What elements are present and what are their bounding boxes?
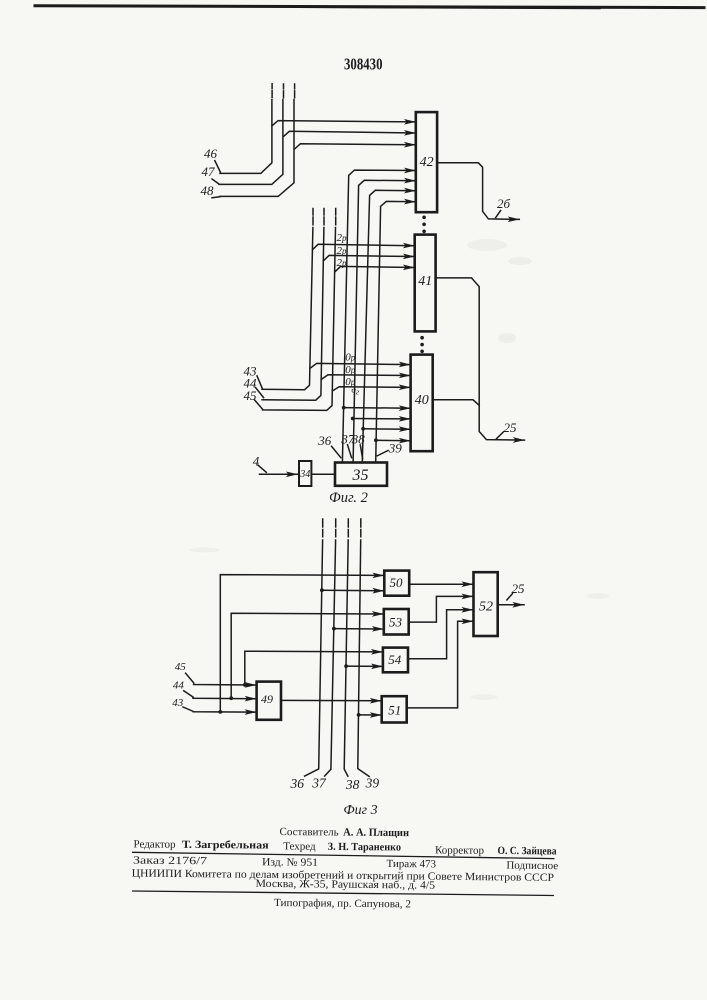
footer: TsNIIPI line	[132, 868, 555, 884]
svg-text:40: 40	[415, 393, 429, 408]
block 52	[474, 572, 498, 636]
wire 36: from block 35 up, bend into block 42 pin 4	[342, 170, 415, 462]
wire 38 branch into block 54 pin 2	[346, 665, 383, 667]
junction dot on wire 36 (fig3)	[320, 588, 324, 592]
svg-text:Фиг. 2: Фиг. 2	[329, 490, 368, 506]
junction dot on wire 36	[342, 406, 346, 410]
svg-text:45: 45	[175, 661, 187, 673]
wire 44 riser to block 53 pin 1	[231, 613, 383, 698]
svg-text:37: 37	[311, 775, 327, 790]
wire from block 34 to block 35	[311, 473, 335, 475]
svg-text:42: 42	[420, 155, 434, 170]
input wire 4 with arrow into block 34	[258, 465, 297, 474]
block 54	[383, 648, 408, 673]
wire 44 (tick, horizontal, riser V2 with dashed top)	[256, 209, 325, 401]
junction dot on wire 39 (fig3)	[357, 713, 361, 717]
svg-text:35: 35	[352, 467, 369, 484]
wire 44 branch 0p into block 40 pin 2	[321, 375, 410, 380]
svg-text:З. Н. Тараненко: З. Н. Тараненко	[328, 841, 402, 854]
svg-text:Изд. № 951: Изд. № 951	[262, 856, 318, 869]
wire 43 branch 2p into block 41 pin 1	[313, 244, 415, 249]
footer: korrektor	[435, 844, 557, 857]
wire 43 riser to block 50 pin 1	[220, 575, 384, 712]
wire 43 (tick, horizontal, riser V1 with dashed top)	[257, 209, 313, 390]
output wire of block 50 into block 52 pin 1	[409, 583, 473, 585]
svg-text:52: 52	[479, 600, 493, 615]
label 38 (fig2) with leader	[360, 445, 362, 459]
footer rule 1	[132, 852, 555, 858]
svg-text:46: 46	[204, 146, 218, 161]
output wire of block 54 into block 52 pin 3	[408, 610, 473, 659]
output wire 25 of block 52	[498, 604, 524, 606]
junction dot on wire 43 (fig3)	[218, 710, 222, 714]
top border rule	[35, 6, 704, 8]
svg-text:Подписное: Подписное	[506, 860, 558, 873]
wire 45 riser to block 54 pin 1	[245, 651, 383, 685]
junction dot on wire 44 (fig3)	[229, 696, 233, 700]
block 34	[299, 461, 311, 486]
svg-text:Фиг 3: Фиг 3	[343, 803, 377, 818]
svg-text:49: 49	[261, 692, 273, 706]
wire 45 (tick, horizontal, riser V3 with dashed top)	[255, 209, 336, 411]
svg-text:2p: 2p	[337, 257, 348, 269]
svg-text:0p: 0p	[345, 351, 356, 363]
wire 39 branch into block 40 pin 7	[376, 439, 411, 442]
svg-text:4: 4	[253, 454, 260, 469]
wire 37 branch into block 40 pin 5	[353, 418, 411, 420]
label 25 (fig2) with leader	[497, 432, 504, 439]
label 39 (fig2) with leader	[377, 451, 388, 456]
svg-text:2p: 2p	[337, 232, 348, 244]
svg-text:А. А. Плащин: А. А. Плащин	[343, 827, 410, 840]
svg-text:39: 39	[365, 776, 380, 791]
output wire of block 53 into block 52 pin 2	[409, 596, 473, 622]
svg-text:51: 51	[388, 703, 401, 718]
svg-text:50: 50	[390, 575, 404, 590]
junction dot on wire 45 (fig3)	[243, 683, 247, 687]
block 50	[384, 571, 409, 596]
svg-text:Типография, пр. Сапунова, 2: Типография, пр. Сапунова, 2	[274, 897, 411, 910]
ellipsis dots between 41 and 40	[420, 336, 424, 353]
wire 48 branch into block 42 pin 3	[295, 144, 416, 149]
svg-text:25: 25	[504, 420, 518, 435]
wire 37: from block 35 up, bend into block 42 pin 5	[353, 180, 416, 462]
output wire of block 42 to arrow 2b	[437, 163, 519, 220]
wire 39 (fig3) vertical with dashed top	[358, 519, 369, 777]
svg-text:47: 47	[202, 164, 216, 179]
label 25 (fig3) with leader	[507, 594, 513, 600]
wire 36 branch into block 40 pin 4	[344, 407, 411, 410]
svg-text:2б: 2б	[497, 196, 511, 211]
wire 36 branch into block 50 pin 2	[322, 589, 384, 592]
svg-text:34: 34	[299, 469, 310, 480]
footer: tipografiya line	[274, 897, 411, 910]
wire 38 (fig3) vertical with dashed top	[344, 519, 348, 776]
output wire of block 49 into block 51 pin 1	[281, 699, 381, 701]
label 36 (fig2) with leader	[332, 446, 341, 457]
svg-text:О. С. Зайцева: О. С. Зайцева	[497, 845, 557, 858]
ellipsis dots between 42 and 41	[422, 216, 426, 234]
label 37 (fig2) with leader	[348, 445, 352, 458]
wire 46 (tick, horizontal, riser to dashed continuation)	[215, 84, 272, 174]
svg-text:54: 54	[388, 652, 402, 667]
output wire of block 41 down to arrow 25	[436, 278, 525, 440]
svg-text:Заказ 2176/7: Заказ 2176/7	[133, 855, 208, 868]
wire 39: from block 35 up, bend into block 42 pin 7	[376, 201, 416, 462]
wire 46 branch into block 42 pin 1	[272, 121, 416, 126]
block 40	[411, 355, 433, 452]
svg-text:2p: 2p	[337, 245, 348, 257]
wire 43 branch 0p into block 40 pin 1	[310, 363, 410, 368]
junction dot on wire 38 (fig3)	[344, 664, 348, 668]
footer: sostavitel line	[279, 826, 409, 839]
wire 45 branch 2p into block 41 pin 3	[335, 266, 415, 271]
wire 38 branch into block 40 pin 6	[363, 428, 410, 431]
wire 43 (fig3) tick and horizontal into block 49 pin 3	[183, 707, 256, 712]
svg-text:Техред: Техред	[283, 841, 316, 853]
wire 39 branch into block 51 pin 2	[359, 714, 382, 716]
svg-text:38: 38	[345, 777, 360, 792]
footer: tekhred	[283, 841, 401, 854]
block 41	[415, 235, 436, 332]
svg-text:53: 53	[389, 614, 403, 629]
output wire of block 51 into block 52 pin 4	[407, 621, 473, 708]
junction dot on wire 39	[374, 438, 378, 442]
svg-text:41: 41	[418, 274, 432, 289]
svg-text:39: 39	[388, 441, 403, 456]
wire 47 branch into block 42 pin 2	[283, 131, 415, 136]
block 35	[335, 463, 387, 486]
wire 38: from block 35 up, bend into block 42 pin 6	[362, 190, 415, 462]
svg-text:Редактор: Редактор	[133, 838, 176, 850]
wire 47 (tick, horizontal, riser to dashed continuation)	[212, 84, 284, 184]
wire 36 (fig3) vertical with dashed top	[305, 519, 323, 776]
wire 45 branch 0p into block 40 pin 3	[332, 387, 410, 391]
junction dot on wire 38	[361, 427, 365, 431]
block 42	[416, 112, 437, 212]
faint scan smudges (decorative tone)	[190, 239, 609, 700]
junction dot on wire 37 (fig3)	[332, 627, 336, 631]
svg-text:45: 45	[244, 388, 258, 403]
block 51	[382, 696, 407, 722]
block 53	[384, 609, 409, 635]
svg-text:Москва, Ж-35, Раушская наб., д: Москва, Ж-35, Раушская наб., д. 4/5	[255, 878, 435, 892]
footer: redaktor	[133, 838, 268, 851]
svg-text:36: 36	[317, 433, 332, 448]
svg-text:43: 43	[172, 697, 184, 709]
junction dot on wire 37	[351, 417, 355, 421]
label 2b with leader	[496, 211, 501, 218]
footer: Moskva line	[255, 878, 435, 892]
svg-text:Составитель: Составитель	[279, 826, 338, 839]
output wire of block 40 joining vertical	[433, 400, 480, 406]
svg-text:25: 25	[512, 581, 526, 596]
wire 44 branch 2p into block 41 pin 2	[324, 255, 415, 260]
wire 48 (tick, horizontal, riser to dashed continuation)	[212, 84, 295, 198]
svg-text:Корректор: Корректор	[435, 844, 485, 856]
wire 45 (fig3) tick and horizontal into block 49 pin 1	[186, 673, 257, 685]
block 49	[257, 682, 281, 720]
footer: zakaz line	[133, 855, 558, 873]
wire 37 branch into block 53 pin 2	[334, 628, 384, 630]
wire 37 (fig3) vertical with dashed top	[325, 519, 336, 776]
svg-text:36: 36	[289, 776, 304, 791]
svg-text:Тираж 473: Тираж 473	[386, 858, 436, 871]
svg-text:308430: 308430	[344, 55, 383, 74]
svg-text:48: 48	[201, 183, 215, 198]
svg-text:44: 44	[173, 680, 185, 692]
svg-text:Т. Загребельная: Т. Загребельная	[182, 839, 269, 852]
footer rule 2	[132, 891, 554, 896]
svg-text:38: 38	[351, 432, 366, 447]
wire 44 (fig3) tick and horizontal into block 49 pin 2	[184, 691, 257, 699]
